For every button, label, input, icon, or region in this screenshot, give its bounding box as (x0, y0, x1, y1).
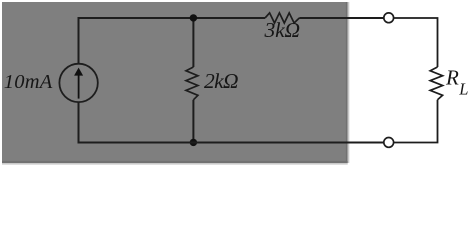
current source I1 arrow stem (78, 72, 80, 99)
resistor R2 3kohm zigzag (265, 13, 299, 23)
wire: 2k resistor bottom lead to junction (192, 100, 194, 143)
wire: terminal b to bottom-right corner, up to RL (394, 100, 438, 143)
terminal a (top open circle) (384, 13, 394, 23)
svg-text:R: R (445, 66, 459, 90)
terminal b (bottom open circle) (384, 138, 394, 148)
gray panel right edge shade (346, 2, 348, 163)
svg-text:2kΩ: 2kΩ (204, 69, 239, 93)
svg-text:3kΩ: 3kΩ (264, 18, 301, 42)
wire: left vertical (bottom segment below current source) (78, 102, 80, 142)
resistor RL zigzag (430, 67, 442, 100)
current source I1 arrow head (74, 68, 83, 76)
svg-text:L: L (458, 80, 468, 99)
resistor R1 2kohm zigzag (186, 67, 198, 100)
wire: top horizontal from 3k resistor to terminal a (299, 17, 384, 19)
wire: bottom horizontal from left corner to terminal b (78, 142, 385, 144)
wire: top horizontal from left corner to 3k resistor (78, 17, 266, 19)
node junction top (190, 14, 197, 21)
svg-text:10mA: 10mA (4, 71, 53, 93)
wire: top horizontal terminal a to top-right corner, down to RL (394, 18, 438, 67)
wire: left vertical (top segment above current source) (78, 18, 80, 64)
gray background panel (2, 2, 348, 163)
current source I1 circle (59, 64, 97, 102)
wire: 2k resistor top lead from junction (192, 18, 194, 67)
node junction bottom (190, 139, 197, 146)
gray panel bottom edge shade (2, 161, 348, 163)
